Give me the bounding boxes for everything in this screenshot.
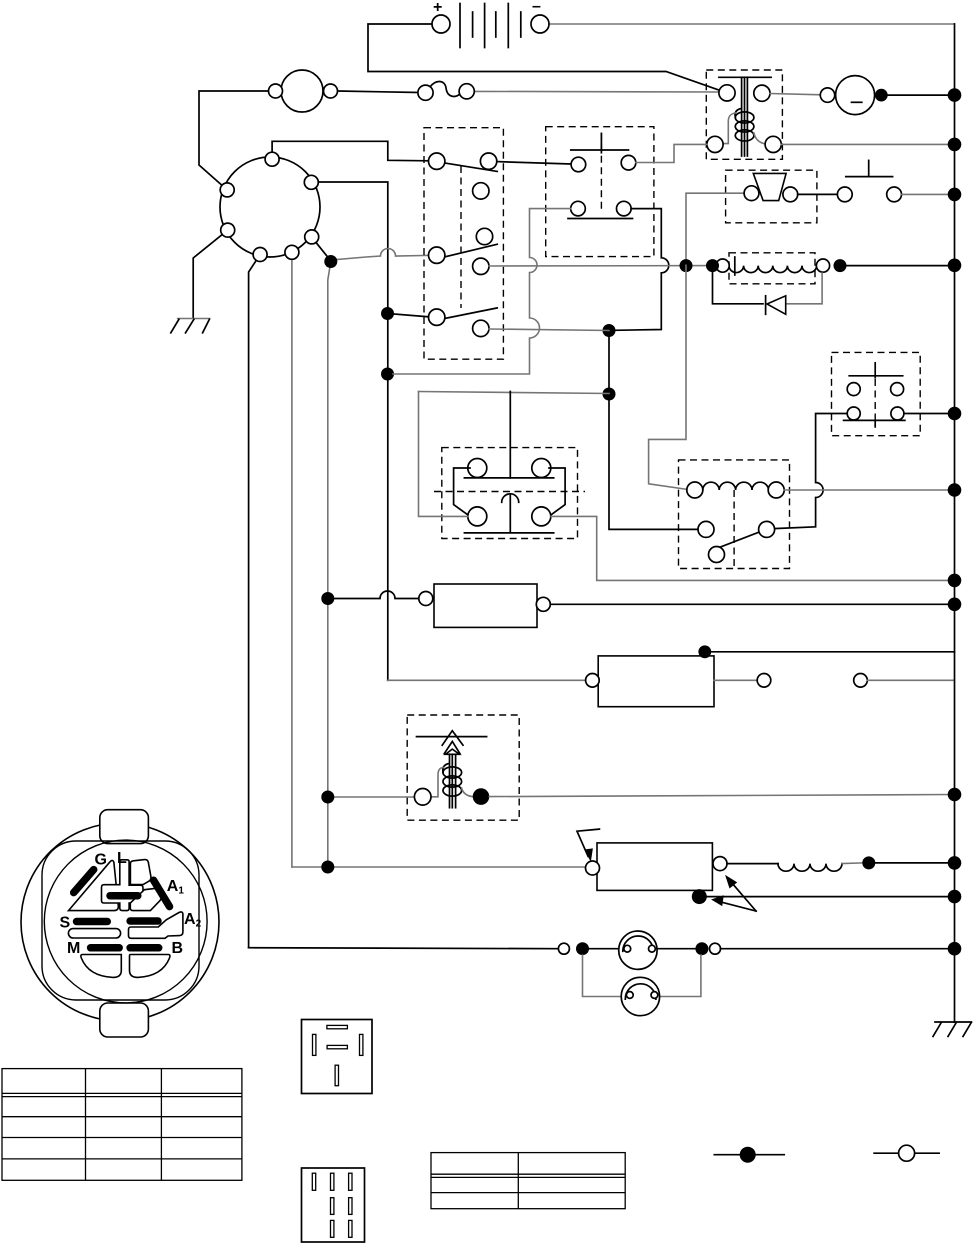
junction hourmeter feed [321,592,334,605]
wire ignition B headlight feed down [249,255,261,948]
ignition module left terminal [414,789,431,806]
key switch connector detail [21,810,219,1037]
brake switch dashed divider [600,133,602,212]
hourmeter P1 [321,584,954,627]
clutch coil lead tick [734,257,736,275]
headlight switch S5 [774,352,954,528]
wire ignition L terminal down [291,259,293,867]
interlock pair3 left contact [429,309,445,325]
solenoid coil terminal ground [765,136,781,152]
key terminal bar M right [130,944,159,952]
starter solenoid K1 [706,70,954,159]
relay contact fixed left [698,521,714,537]
wire clutch switch right leg to bus [551,516,955,580]
clutch coil winding [729,266,817,273]
key cavity fan left [81,955,121,978]
clutch coil left terminal [716,259,729,272]
clutch switch bottom right contact [532,507,551,526]
fuel solenoid body [598,656,714,707]
solenoid plunger [742,77,748,156]
buzzer right terminal [783,187,798,202]
headlight feed terminal [558,943,569,954]
junction clutch line diode feed [706,259,719,272]
interlock pair1 left contact [429,153,445,169]
ignition terminal upper left [220,183,234,197]
wire relay to interlock junction [609,331,698,530]
ignition module U1 [321,715,954,820]
interlock dashed divider [460,166,462,308]
interlock dashed box [424,128,503,360]
solenoid top bar [719,76,771,78]
headlights [249,931,955,1016]
starter motor terminal junction [875,89,888,102]
ignition module dashed box [407,715,519,820]
wire brake bottom right down [615,209,669,331]
junction headlight left [576,942,589,955]
key cavity center [102,860,144,911]
spark plug tip triangle [445,749,459,754]
ignition switch body [220,157,320,257]
brake switch bottom bar [568,218,633,220]
bus junction ignition module [948,788,962,802]
interlock pair3 blade [446,308,497,318]
wire interlock pair1 to brake switch [497,162,571,164]
headlight switch plunger cross [874,363,876,378]
starter motor M2 [770,76,955,115]
ground chassis left [171,319,210,333]
key terminal bar center [110,892,138,900]
clutch switch bottom left contact [468,507,487,526]
interlock pair1 blade [446,163,497,171]
brake switch bottom right contact [617,201,632,216]
key cavity A2 with S right [129,912,183,938]
junction clutch switch feed lower [603,388,616,401]
junction ignition A2 [324,255,337,268]
clutch coil dashed box [729,253,815,284]
wire clutch switch left leg [419,392,469,517]
wire alternator junction to bus [875,862,954,864]
bus junction clutch coil [948,259,962,273]
seat switch left contact [837,187,852,202]
ignition terminal lower left [221,223,235,237]
wire clutch coil to bus [847,265,955,267]
wire alternator to junction [842,862,862,865]
ignition switch S1 [193,141,428,947]
regulator left annotation arrow [577,829,599,862]
wire headlight switch to bus [904,413,955,415]
wire ignition ground terminal to chassis ground [193,230,228,318]
headlight switch contact top right [891,383,904,396]
wire ignition module to bus [489,795,954,797]
junction headlight right [695,942,708,955]
wire regulator feed [292,866,586,868]
key terminal bar G [74,870,94,893]
wire diode branch [713,266,764,304]
junction on A1 feed lower [381,368,394,381]
svg-text:–: – [532,0,541,15]
svg-text:L: L [117,850,127,867]
wire junction to interlock pair3 [388,314,429,317]
headlight switch dashed divider [874,379,876,428]
legend table [431,1153,625,1209]
buzzer horn [753,173,786,200]
relay coil winding [703,482,769,490]
wire coil to lower contacts [722,113,735,144]
battery B1 [368,0,955,93]
solenoid coil [735,109,754,142]
voltage regulator U2 [292,829,955,911]
wire ignition M terminal junction down [328,262,331,868]
relay K2 [609,265,955,568]
regulator left terminal [586,861,600,875]
headlight switch contact bottom left [847,407,860,420]
wire headlamp 1 to junction [657,948,695,950]
brake switch dashed box [546,127,654,257]
clutch switch plunger top [509,392,511,478]
clutch switch top right contact [532,459,551,478]
hourmeter left terminal [419,592,433,606]
headlight right terminal [710,943,721,954]
key terminal bar S right [130,917,158,925]
spark chevron inner [444,741,460,753]
bus junction seat switch [948,188,962,202]
wire solenoid to starter motor [770,94,821,95]
key connector top tab [100,810,149,844]
bus junction solenoid ground [948,138,962,152]
key cavity L flag [130,860,151,885]
ignition terminal upper right [304,175,318,189]
buzzer H1 [686,170,837,265]
junction fuel solenoid case [698,645,711,658]
wire A1 feed to fuel solenoid [388,679,587,681]
wire battery plus to solenoid feed [368,24,727,93]
clutch switch top bar [464,477,553,479]
interlock pair3 right contact [473,320,489,336]
fuel line connector terminal [854,674,868,688]
wire regulator ground to bus [707,896,955,898]
clutch switch plunger bottom [509,495,511,532]
solenoid contact battery [719,85,735,101]
key terminal bar A1 [154,880,170,906]
wire relay coil feed [649,265,688,489]
battery cells [460,4,521,48]
clutch coil L1 [489,253,955,284]
ammeter M1 [199,70,419,190]
wire solenoid ground side to bus [781,143,954,145]
battery plus terminal [432,15,450,33]
headlamp 2 [621,977,659,1015]
clutch switch right link [549,468,565,515]
wire fuel solenoid right [714,679,757,681]
spark chevron outer [442,731,463,746]
wire ammeter to ignition switch B terminal [199,91,269,190]
wire connector detail [302,1168,365,1242]
seat switch S4 [837,160,954,201]
relay socket detail [302,1020,373,1094]
ignition terminal bottom mid [285,245,299,259]
ignition terminal lower right [305,230,319,244]
hourmeter body [434,584,537,627]
wire to headlamp 1 [589,948,620,950]
wire regulator to alternator coil [727,863,778,865]
brake switch bottom left contact [571,201,586,216]
solenoid contact motor [754,85,770,101]
ignition coil winding [443,764,462,797]
bus junction headlight switch [948,407,962,421]
relay coil right terminal [768,482,784,498]
attachment clutch switch S6 [419,392,955,581]
solenoid coil terminal S [707,136,723,152]
svg-text:S: S [60,915,71,932]
relay coil left terminal [687,482,703,498]
relay contact common [709,547,725,563]
fuse F1 [418,81,719,100]
key cavity triangle [69,860,119,910]
svg-text:G: G [95,852,107,869]
wire ignition top terminal to interlock box [272,141,428,161]
battery minus terminal [531,15,549,33]
wire buzzer to seat switch [798,193,838,195]
legend symbol terminal [874,1145,939,1161]
key connector square [42,841,199,1000]
wire A2 stub [316,243,328,258]
bus junction relay coil [948,483,962,497]
wire ammeter to fuse [338,91,419,93]
interlock open contact mid [476,228,492,244]
relay contact fixed right [759,521,775,537]
ignition terminal top [265,152,279,166]
bus junction clutch switch [948,574,962,588]
wire headlight switch to relay with hop [774,414,847,529]
clutch switch bottom bar [464,532,553,534]
fuel solenoid left terminal [586,674,600,688]
wire ignition module feed [328,796,415,798]
key cavity fan right [130,955,170,978]
wire attachment clutch switch feed [419,392,610,394]
spark plug core lines [450,754,456,807]
headlight switch contact bottom right [891,407,904,420]
bus junction starter [948,88,962,102]
junction regulator feed [321,861,334,874]
key connector inner ring [44,840,207,1003]
relay switch blade [710,531,762,551]
wire module terminal to coil [431,768,444,797]
headlight switch bottom bar [844,419,905,421]
key connector bottom tab [100,1003,149,1037]
wire starter motor to bus [888,94,955,96]
wire fuse to solenoid battery contact [473,90,719,93]
interlock pair2 right contact [473,258,489,274]
wire headlight feed row [249,948,559,949]
bus junction headlights [948,942,962,956]
wire ignition A1 terminal down right bus feed [318,182,388,680]
bus junction regulator ground [948,890,962,904]
diode cathode bar [765,296,767,315]
key cavity S left [68,929,120,938]
interlock switch module S2 [381,128,503,381]
clutch switch dashed midline [434,491,585,493]
wire ignition A2 to interlock pair2 with hop [331,249,429,260]
solenoid dashed box [706,70,782,159]
key terminal bar S left [77,918,108,926]
seat switch plunger [868,160,870,176]
buzzer left terminal [744,186,759,201]
clutch switch dashed box [442,448,578,539]
key terminal bar M left [91,944,120,952]
headlamp 1 [619,931,657,969]
wire brake bottom left down [393,209,571,374]
svg-text:B: B [172,940,184,957]
relay dashed box [679,460,790,569]
wire interlock pair2 to clutch coil line [489,265,717,267]
bus junction hourmeter [948,598,962,612]
brake switch S3 [393,127,707,374]
ignition terminal bottom left [253,248,267,262]
headlight switch dashed box [832,352,921,435]
right bus wire [948,24,962,1022]
wire seat switch to bus [902,193,955,195]
spark gap electrode line [417,736,487,738]
junction alternator out [862,856,875,869]
regulator body [597,843,712,891]
junction clutch line relay feed [680,259,693,272]
junction clutch switch feed upper [603,324,616,337]
clutch coil right terminal [816,259,829,272]
key connector outer ring [21,823,219,1021]
wire brake switch to solenoid coil [636,144,707,162]
wire headlights to bus [721,948,955,950]
buzzer dashed box [726,170,817,223]
regulator right terminal [713,857,727,871]
wire headlamp 2 branch [583,955,622,997]
clutch switch left link [454,468,470,515]
legend symbol connected [714,1147,784,1163]
clutch switch dome [502,494,519,503]
fuel solenoid Y1 [388,645,955,706]
clutch switch top left contact [468,459,487,478]
interlock pair2 blade [446,244,497,256]
diode triangle [767,296,786,315]
seat switch right contact [887,187,902,202]
headlight switch contact top left [847,383,860,396]
svg-text:M: M [67,940,80,957]
wire relay coil to bus [784,489,954,491]
wire fuel connector to bus [867,679,954,681]
wire hourmeter to bus [550,603,954,605]
flyback diode D1 [713,266,823,315]
svg-text:+: + [433,0,442,16]
junction on A1 feed upper [381,307,394,320]
wire hourmeter feed with hop [328,591,419,599]
brake switch top left contact [571,157,586,172]
junction clutch coil out [834,259,847,272]
ground chassis right [933,1022,972,1037]
relay dashed divider [733,490,735,569]
key position table [2,1069,242,1181]
fuel solenoid right terminal [757,674,771,688]
wire interlock pair3 to junction [489,329,609,331]
junction ignition module feed [321,791,334,804]
key cavity right mid [130,888,161,910]
hourmeter right terminal [536,597,550,611]
interlock open contact upper [473,183,489,199]
ignition module right terminal filled [473,788,490,805]
regulator annotation V arrows [711,875,756,911]
interlock pair1 right contact [480,153,496,169]
wire buzzer feed from clutch line [686,193,744,265]
bus junction alternator [948,856,962,870]
brake switch plunger cross [600,133,602,152]
regulator ground junction [692,889,707,904]
brake switch top right contact [621,155,636,170]
interlock pair2 left contact [429,247,445,263]
wire battery minus to right bus top [549,23,955,25]
alternator winding L2 [778,864,842,872]
wire fuel solenoid case to bus [705,651,955,653]
